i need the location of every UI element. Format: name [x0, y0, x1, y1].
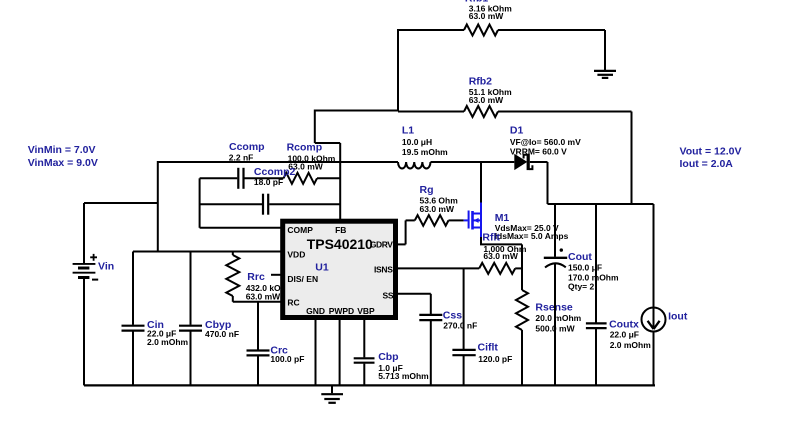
ground (below IC) — [321, 385, 343, 402]
capacitor Cbp — [354, 318, 429, 385]
capacitor Coutx — [586, 204, 651, 385]
wire COMP pin — [200, 227, 281, 229]
ground bus — [84, 384, 655, 386]
svg-text:RC: RC — [287, 298, 299, 308]
wire main top rail — [158, 161, 398, 163]
resistor Rfb2 — [398, 76, 632, 117]
wire input rail vertical — [157, 161, 159, 252]
svg-text:GND: GND — [306, 306, 325, 316]
diode D1 (schottky) — [510, 125, 581, 171]
svg-text:VinMin = 7.0V: VinMin = 7.0V — [28, 144, 96, 156]
inductor L1 — [398, 125, 448, 169]
wire Rfb1 right to ground — [604, 30, 606, 70]
wire Rfb2 right down to output node — [631, 112, 633, 205]
svg-text:Vin: Vin — [98, 260, 114, 272]
wire battery to rail — [84, 202, 158, 204]
svg-text:ISNS: ISNS — [374, 265, 393, 275]
svg-text:2.0 mOhm: 2.0 mOhm — [147, 337, 189, 347]
wire RC row — [233, 301, 281, 303]
svg-text:Cout: Cout — [568, 251, 592, 263]
capacitor Ciflt — [452, 268, 512, 385]
battery Vin — [73, 203, 115, 385]
capacitor Cbyp — [179, 252, 239, 386]
svg-text:VDD: VDD — [287, 250, 305, 260]
svg-text:2.2 nF: 2.2 nF — [229, 152, 254, 162]
resistor Rfb1 — [398, 0, 605, 36]
resistor Rsense — [516, 290, 582, 385]
svg-text:63.0 mW: 63.0 mW — [483, 251, 518, 261]
svg-text:Ccomp: Ccomp — [229, 141, 265, 153]
resistor Rflt — [397, 231, 527, 274]
resistor Rcomp — [284, 141, 341, 183]
svg-text:COMP: COMP — [287, 225, 313, 235]
svg-text:2.0 mOhm: 2.0 mOhm — [610, 340, 652, 350]
svg-text:19.5 mOhm: 19.5 mOhm — [402, 147, 448, 157]
svg-text:GDRV: GDRV — [370, 240, 393, 250]
svg-text:DIS/ EN: DIS/ EN — [287, 274, 318, 284]
svg-text:U1: U1 — [315, 261, 329, 273]
svg-text:63.0 mW: 63.0 mW — [469, 95, 504, 105]
transistor M1 (NMOS, blue) — [464, 203, 569, 241]
wire L1 to D1 — [431, 161, 515, 163]
capacitor Crc — [247, 302, 305, 386]
svg-text:Cbp: Cbp — [378, 351, 398, 363]
svg-text:270.0 nF: 270.0 nF — [443, 321, 477, 331]
svg-text:VRRM= 60.0 V: VRRM= 60.0 V — [510, 146, 567, 156]
svg-text:Css: Css — [443, 309, 462, 321]
svg-text:Ciflt: Ciflt — [478, 342, 499, 354]
svg-text:18.0 pF: 18.0 pF — [254, 177, 283, 187]
svg-text:5.713 mOhm: 5.713 mOhm — [378, 371, 429, 381]
svg-text:10.0 μH: 10.0 μH — [402, 137, 432, 147]
svg-text:100.0 pF: 100.0 pF — [270, 354, 304, 364]
svg-text:63.0 mW: 63.0 mW — [246, 292, 281, 302]
svg-text:Qty= 2: Qty= 2 — [568, 281, 594, 291]
svg-text:Rrc: Rrc — [247, 271, 265, 283]
capacitor Ccomp — [200, 141, 284, 189]
svg-text:63.0 mW: 63.0 mW — [469, 11, 504, 21]
capacitor Css — [397, 294, 477, 386]
resistor Rrc — [226, 252, 294, 302]
svg-text:20.0 mOhm: 20.0 mOhm — [535, 313, 581, 323]
svg-text:IdsMax= 5.0 Amps: IdsMax= 5.0 Amps — [495, 231, 569, 241]
svg-text:470.0 nF: 470.0 nF — [205, 329, 239, 339]
capacitor Ccomp2 — [200, 166, 341, 215]
svg-text:VBP: VBP — [357, 306, 375, 316]
wire PWPD pin — [339, 318, 341, 385]
node output row — [548, 203, 654, 205]
svg-text:Iout: Iout — [668, 311, 688, 323]
svg-text:VinMax = 9.0V: VinMax = 9.0V — [28, 157, 98, 169]
wire D1 to output corner — [530, 161, 548, 163]
wire VDD row — [133, 251, 281, 253]
svg-text:Coutx: Coutx — [609, 318, 639, 330]
wire FB vertical — [339, 143, 341, 220]
resistor Rg — [397, 184, 464, 245]
wire M1 drain junction — [480, 161, 482, 203]
svg-text:63.0 mW: 63.0 mW — [420, 204, 455, 214]
svg-text:Rflt: Rflt — [482, 231, 500, 243]
svg-text:TPS40210: TPS40210 — [307, 236, 373, 252]
capacitor Cin — [122, 252, 189, 386]
svg-text:Rfb2: Rfb2 — [469, 76, 492, 88]
svg-text:FB: FB — [335, 225, 346, 235]
wire GND pin — [315, 318, 317, 385]
svg-text:Vout = 12.0V: Vout = 12.0V — [680, 146, 742, 158]
svg-text:22.0 μF: 22.0 μF — [610, 330, 639, 340]
svg-text:Iout = 2.0A: Iout = 2.0A — [680, 158, 734, 170]
svg-text:D1: D1 — [510, 125, 524, 137]
capacitor Cout (polarized) — [544, 204, 619, 385]
IC U1 TPS40210 — [283, 221, 396, 317]
wire M1 source — [480, 237, 482, 244]
current source Iout — [642, 204, 688, 385]
wire feedback left vertical — [397, 29, 399, 111]
svg-text:Rg: Rg — [420, 184, 434, 196]
svg-text:SS: SS — [383, 291, 394, 301]
svg-text:PWPD: PWPD — [329, 306, 355, 316]
svg-text:L1: L1 — [402, 125, 414, 137]
svg-text:Rcomp: Rcomp — [287, 141, 323, 153]
svg-text:120.0 pF: 120.0 pF — [478, 354, 512, 364]
ground (top right) — [594, 71, 616, 78]
wire DIS/EN stub — [271, 274, 281, 276]
